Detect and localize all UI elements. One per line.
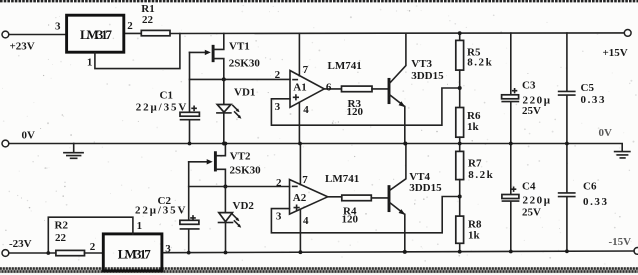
svg-text:LM741: LM741 — [328, 60, 362, 72]
svg-text:LM741: LM741 — [325, 173, 359, 185]
svg-text:7: 7 — [303, 64, 309, 76]
svg-text:C3: C3 — [522, 80, 536, 92]
svg-text:3DD15: 3DD15 — [409, 182, 442, 194]
svg-text:LM317: LM317 — [80, 27, 113, 42]
svg-text:VT1: VT1 — [229, 41, 250, 53]
svg-text:-15V: -15V — [609, 236, 632, 248]
svg-text:0V: 0V — [599, 127, 613, 139]
svg-text:2: 2 — [276, 177, 282, 189]
svg-text:C4: C4 — [522, 181, 536, 193]
svg-text:2: 2 — [90, 241, 96, 253]
svg-text:C5: C5 — [581, 82, 595, 94]
svg-text:22μ/35V: 22μ/35V — [136, 102, 187, 114]
svg-text:0V: 0V — [22, 130, 36, 142]
svg-text:25V: 25V — [522, 207, 541, 219]
svg-text:+15V: +15V — [603, 47, 628, 59]
svg-text:+23V: +23V — [10, 41, 35, 53]
svg-text:120: 120 — [347, 106, 364, 118]
svg-text:8.2k: 8.2k — [467, 57, 492, 69]
svg-text:7: 7 — [302, 174, 308, 186]
svg-text:0.33: 0.33 — [583, 196, 608, 208]
svg-text:A1: A1 — [293, 82, 306, 94]
svg-text:C1: C1 — [160, 90, 173, 102]
svg-text:2SK30: 2SK30 — [229, 58, 261, 70]
svg-text:8.2k: 8.2k — [468, 169, 493, 181]
svg-text:C6: C6 — [583, 181, 597, 193]
svg-text:22: 22 — [55, 232, 67, 244]
svg-text:4: 4 — [303, 104, 309, 116]
svg-text:3DD15: 3DD15 — [411, 70, 444, 82]
svg-text:120: 120 — [342, 214, 359, 226]
svg-text:22μ/35V: 22μ/35V — [135, 205, 186, 217]
svg-text:1: 1 — [137, 220, 143, 232]
svg-text:VD2: VD2 — [233, 200, 255, 212]
svg-text:1k: 1k — [467, 121, 480, 133]
svg-text:3: 3 — [55, 20, 61, 32]
svg-text:LM317: LM317 — [118, 247, 152, 262]
svg-text:25V: 25V — [522, 105, 541, 117]
svg-text:3: 3 — [275, 101, 281, 113]
svg-text:VD1: VD1 — [234, 87, 255, 99]
svg-text:6: 6 — [326, 82, 332, 94]
svg-text:R2: R2 — [55, 220, 69, 232]
svg-text:2: 2 — [275, 69, 281, 81]
svg-text:22: 22 — [142, 14, 154, 26]
svg-text:220μ: 220μ — [523, 195, 551, 207]
svg-text:4: 4 — [303, 215, 309, 227]
svg-text:A2: A2 — [293, 192, 307, 204]
svg-text:R7: R7 — [468, 158, 482, 170]
svg-text:VT2: VT2 — [230, 151, 251, 163]
svg-text:0.33: 0.33 — [581, 94, 606, 106]
svg-text:2: 2 — [127, 20, 133, 32]
svg-text:VT3: VT3 — [411, 58, 432, 70]
svg-text:3: 3 — [276, 210, 282, 222]
svg-text:-23V: -23V — [9, 238, 32, 250]
svg-text:1k: 1k — [468, 230, 481, 242]
svg-text:1: 1 — [87, 56, 93, 68]
svg-text:2SK30: 2SK30 — [230, 165, 262, 177]
svg-text:3: 3 — [165, 243, 171, 255]
